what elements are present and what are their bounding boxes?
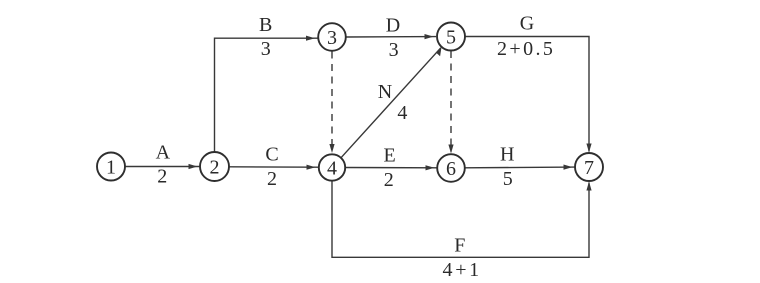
label F/4+1 bbox=[443, 235, 482, 282]
svg-text:3: 3 bbox=[389, 39, 399, 61]
node 1 bbox=[97, 153, 125, 181]
node 5 bbox=[437, 23, 465, 51]
label A/2 bbox=[156, 142, 171, 188]
svg-text:2: 2 bbox=[210, 156, 220, 178]
wire dummy dashed arrow 5-6 bbox=[448, 51, 453, 154]
svg-text:2: 2 bbox=[157, 166, 167, 188]
label B/3 bbox=[259, 14, 272, 60]
svg-text:4: 4 bbox=[327, 157, 337, 179]
node 4 bbox=[319, 154, 345, 180]
svg-text:D: D bbox=[386, 15, 400, 37]
wire activity A arrow 1-2 bbox=[125, 164, 200, 169]
svg-text:2+0.5: 2+0.5 bbox=[497, 38, 555, 60]
wire activity F arrow 4-7 (down, right, up) bbox=[332, 181, 592, 258]
wire activity G arrow 5-7 (right then down) bbox=[465, 37, 592, 153]
label E/2 bbox=[383, 145, 395, 192]
svg-text:B: B bbox=[259, 14, 272, 36]
svg-text:C: C bbox=[265, 144, 278, 166]
svg-text:5: 5 bbox=[503, 168, 513, 190]
label C/2 bbox=[265, 144, 278, 191]
label N/4 bbox=[378, 81, 408, 124]
node 6 bbox=[437, 154, 465, 182]
wire activity C arrow 2-4 bbox=[230, 165, 319, 170]
svg-text:N: N bbox=[378, 81, 392, 103]
wire activity H arrow 6-7 bbox=[465, 165, 576, 170]
svg-text:H: H bbox=[500, 144, 514, 166]
svg-text:G: G bbox=[520, 13, 534, 35]
wire activity E arrow 4-6 bbox=[345, 165, 437, 170]
svg-text:6: 6 bbox=[446, 158, 456, 180]
wire activity D arrow 3-5 bbox=[346, 34, 436, 39]
svg-text:4+1: 4+1 bbox=[443, 259, 482, 281]
svg-text:A: A bbox=[156, 142, 171, 164]
label D/3 bbox=[386, 15, 400, 62]
node 2 bbox=[200, 152, 229, 181]
svg-text:3: 3 bbox=[261, 38, 271, 60]
wire activity N diagonal arrow 4-5 bbox=[341, 47, 442, 158]
svg-text:7: 7 bbox=[584, 157, 594, 179]
svg-text:1: 1 bbox=[106, 156, 116, 178]
node 7 bbox=[575, 153, 603, 181]
svg-text:2: 2 bbox=[384, 169, 394, 191]
svg-text:2: 2 bbox=[267, 168, 277, 190]
node 3 bbox=[318, 23, 346, 51]
wire dummy dashed arrow 3-4 bbox=[329, 52, 334, 154]
label G/2+0.5 bbox=[497, 13, 555, 61]
svg-text:5: 5 bbox=[446, 26, 456, 48]
wire activity B arrow 2-3 (up then right) bbox=[215, 36, 318, 153]
svg-text:F: F bbox=[454, 235, 465, 257]
svg-text:4: 4 bbox=[397, 102, 407, 124]
svg-text:3: 3 bbox=[327, 27, 337, 49]
svg-text:E: E bbox=[383, 145, 395, 167]
label H/5 bbox=[500, 144, 514, 191]
